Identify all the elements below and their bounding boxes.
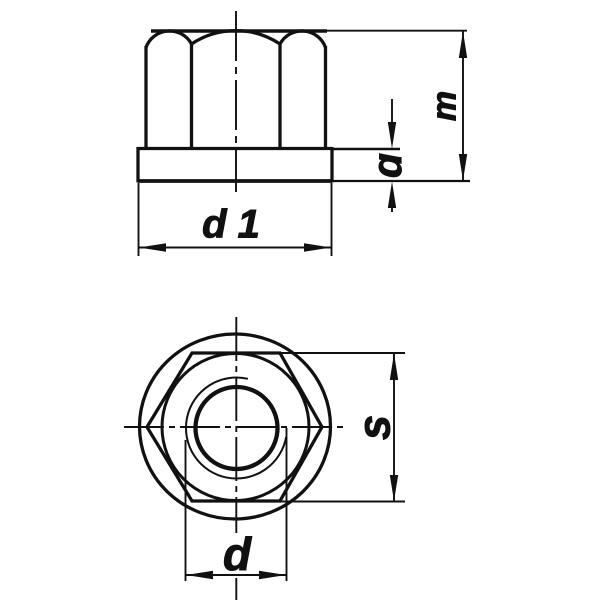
plan view: thread major-diameter arc bbox=[186, 377, 286, 478]
collar right edge bbox=[330, 147, 333, 183]
plan view: thread hole circle bbox=[196, 387, 278, 469]
dimension s: bottom extension line bbox=[280, 501, 405, 503]
side view vertical centerline bbox=[235, 11, 237, 192]
dimension a: lower leader line bbox=[391, 207, 393, 212]
dimension d: dimension line bbox=[186, 574, 287, 576]
nut side view: right outer edge bbox=[324, 46, 327, 149]
dimension d1: right arrowhead bbox=[304, 243, 331, 251]
dimension m: dimension line bbox=[462, 31, 464, 181]
dimension s: bottom arrowhead bbox=[390, 475, 398, 501]
nut side view: middle face chamfer arc bbox=[192, 31, 281, 44]
plan view: horizontal centerline bbox=[124, 426, 347, 428]
nut side view: left outer edge bbox=[144, 46, 147, 149]
plan view: vertical centerline bottom stub bbox=[235, 578, 237, 600]
collar left edge bbox=[136, 147, 139, 183]
dimension a: collar-top extension line bbox=[332, 148, 400, 150]
dimension m: bottom arrowhead bbox=[459, 154, 467, 181]
collar top edge bbox=[138, 147, 332, 150]
dimension d1: right extension line bbox=[331, 183, 333, 256]
nut side view: left face chamfer arc bbox=[146, 31, 192, 48]
dimension s: top arrowhead bbox=[390, 354, 398, 381]
dimension d: left arrowhead bbox=[186, 571, 213, 579]
dimension d1: left arrowhead bbox=[139, 243, 166, 251]
svg-text:ɑ: ɑ bbox=[364, 153, 410, 178]
svg-text:m: m bbox=[426, 91, 464, 121]
dimension d: right arrowhead bbox=[259, 571, 286, 579]
svg-text:s: s bbox=[349, 415, 400, 440]
dimension d: right extension line bbox=[286, 428, 288, 581]
dimension m: bottom extension line bbox=[332, 180, 470, 182]
dimension d1: left extension line bbox=[138, 183, 140, 256]
nut side view: right hex edge bbox=[278, 44, 281, 149]
plan view: hexagon bbox=[147, 353, 322, 501]
collar bottom edge bbox=[138, 179, 332, 183]
nut side view: left hex edge bbox=[190, 44, 193, 149]
dimension d1: dimension line bbox=[139, 247, 332, 249]
dimension m: top extension line bbox=[300, 30, 467, 32]
dimension s: top extension line bbox=[280, 352, 405, 354]
svg-text:d: d bbox=[223, 528, 252, 580]
plan view: vertical centerline upper bbox=[235, 317, 237, 533]
dimension a: lower arrowhead (points up) bbox=[388, 182, 396, 209]
dimension a: upper leader line bbox=[391, 99, 393, 126]
plan view: chamfer circle bbox=[162, 354, 309, 501]
svg-text:d 1: d 1 bbox=[202, 203, 260, 247]
dimension s: dimension line bbox=[393, 353, 395, 502]
dimension m: top arrowhead bbox=[459, 32, 467, 59]
dimension a: upper arrowhead (points down) bbox=[388, 122, 396, 149]
nut side view: right face chamfer arc bbox=[280, 31, 326, 48]
nut side view: top face line bbox=[151, 29, 327, 32]
dimension d: left extension line bbox=[185, 440, 187, 581]
plan view: collar outer circle bbox=[140, 334, 331, 519]
